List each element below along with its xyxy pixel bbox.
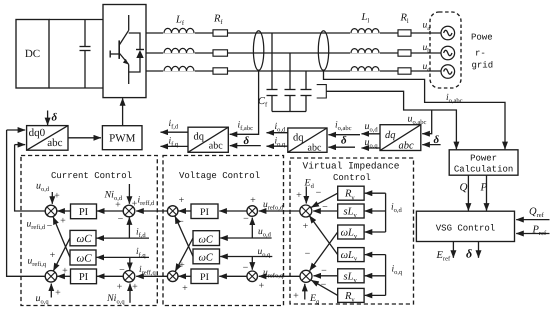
svg-text:PI: PI: [79, 207, 89, 218]
svg-text:+: +: [117, 282, 123, 293]
svg-text:PI: PI: [200, 207, 209, 218]
svg-text:−: −: [118, 214, 124, 225]
svg-text:Calculation: Calculation: [454, 165, 513, 175]
svg-text:+: +: [179, 260, 185, 271]
svg-text:Current Control: Current Control: [51, 171, 132, 181]
svg-text:ωC: ωC: [77, 252, 93, 264]
svg-text:−: −: [321, 265, 327, 276]
svg-text:+: +: [50, 250, 56, 261]
svg-text:δ: δ: [244, 135, 250, 147]
svg-text:+: +: [54, 191, 60, 202]
svg-text:dq: dq: [293, 132, 304, 143]
svg-text:Control: Control: [333, 173, 371, 183]
svg-text:+: +: [60, 216, 66, 227]
svg-text:ωC: ωC: [199, 253, 214, 264]
svg-text:−: −: [243, 263, 249, 274]
svg-text:Voltage Control: Voltage Control: [179, 171, 260, 181]
svg-text:−: −: [47, 221, 53, 232]
svg-text:+: +: [293, 291, 299, 302]
svg-text:Powe: Powe: [471, 33, 493, 43]
svg-text:−: −: [305, 249, 311, 260]
svg-text:−: −: [316, 188, 322, 199]
svg-text:δ: δ: [466, 247, 472, 261]
svg-text:abc: abc: [47, 137, 62, 149]
svg-text:VSG Control: VSG Control: [436, 224, 495, 234]
svg-text:PI: PI: [200, 272, 209, 283]
svg-text:δ: δ: [434, 134, 440, 146]
svg-text:δ: δ: [341, 135, 347, 147]
svg-text:grid: grid: [472, 61, 494, 71]
svg-text:+: +: [62, 266, 68, 277]
svg-text:+: +: [303, 221, 309, 232]
svg-text:dq0: dq0: [29, 127, 46, 139]
svg-text:+: +: [55, 288, 61, 299]
svg-text:−: −: [243, 214, 249, 225]
svg-text:+: +: [115, 200, 121, 211]
svg-text:Q: Q: [460, 182, 468, 194]
svg-text:+: +: [132, 282, 138, 293]
svg-text:abc: abc: [308, 142, 322, 153]
svg-text:Power: Power: [470, 154, 497, 164]
svg-text:DC: DC: [25, 48, 40, 60]
svg-text:δ: δ: [52, 112, 58, 124]
svg-text:PWM: PWM: [109, 133, 136, 145]
svg-text:−: −: [178, 217, 184, 228]
svg-text:abc: abc: [399, 140, 415, 151]
svg-text:+: +: [296, 190, 302, 201]
svg-text:ωC: ωC: [77, 233, 93, 245]
svg-text:ωC: ωC: [199, 234, 214, 245]
svg-text:r-: r-: [475, 49, 486, 59]
svg-text:dq: dq: [385, 130, 396, 141]
svg-text:dq: dq: [194, 132, 205, 143]
svg-text:+: +: [182, 283, 188, 294]
svg-text:P: P: [480, 182, 488, 194]
svg-text:abc: abc: [209, 140, 223, 151]
svg-text:+: +: [259, 281, 265, 292]
svg-text:Virtual Impedance: Virtual Impedance: [303, 161, 400, 172]
svg-text:−: −: [119, 265, 125, 276]
svg-text:+: +: [179, 195, 185, 206]
svg-text:+: +: [250, 195, 256, 206]
svg-text:−: −: [321, 280, 327, 291]
svg-text:−: −: [322, 202, 328, 213]
svg-text:PI: PI: [79, 272, 89, 283]
